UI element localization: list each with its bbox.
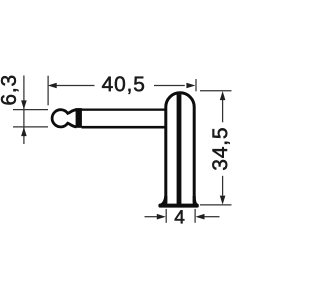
dim 6,3 line — [23, 76, 25, 145]
dim 34,5 bottom extension line — [200, 204, 232, 206]
dim 6,3 top extension line — [13, 109, 48, 111]
dim 40,5 right arrow — [186, 83, 195, 89]
dim 34,5 bottom arrow — [220, 196, 226, 205]
dim 6,3 top arrow — [21, 100, 27, 109]
horizontal tube top wall — [82, 109, 165, 111]
dim 34,5 line bottom segment — [222, 176, 224, 196]
dim 4 right extension line — [194, 209, 196, 223]
foot slab — [158, 204, 198, 208]
bulb — [52, 110, 76, 127]
dim 4 left tail — [145, 216, 158, 218]
dim 40,5 left extension line — [47, 76, 49, 106]
dim text 4 — [175, 210, 185, 223]
center bore — [177, 94, 182, 205]
vertical tube left foot fillet — [159, 196, 168, 204]
dim text 40,5 — [102, 76, 144, 93]
vertical tube right foot fillet — [193, 196, 199, 204]
dim 34,5 top arrow — [220, 91, 226, 100]
collar — [76, 108, 82, 128]
dim 40,5 line left segment — [57, 85, 95, 87]
dim 34,5 line top segment — [222, 100, 224, 122]
dim text 6,3 — [1, 76, 18, 105]
dim 34,5 top extension line — [200, 90, 232, 92]
dim 6,3 bottom extension line — [13, 126, 48, 128]
vertical tube outline — [166, 93, 194, 203]
dim 4 right arrow — [196, 214, 205, 220]
dim 40,5 right extension line — [195, 79, 197, 91]
dim 40,5 line right segment — [154, 85, 185, 87]
dim 4 left extension line — [165, 209, 167, 223]
dim text 34,5 — [212, 128, 229, 170]
dim 40,5 left arrow — [48, 83, 57, 89]
dim 4 right tail — [204, 216, 220, 218]
dim 6,3 bottom arrow — [21, 127, 27, 136]
horizontal tube bottom wall — [82, 126, 165, 129]
dim 4 left arrow — [157, 214, 166, 220]
